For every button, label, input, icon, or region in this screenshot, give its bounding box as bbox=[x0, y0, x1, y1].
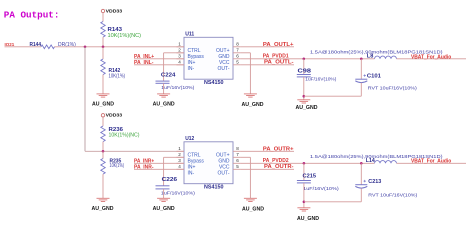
resistor R235 bbox=[102, 151, 104, 158]
svg-text:RVT 10uF/16V(10%): RVT 10uF/16V(10%) bbox=[368, 86, 417, 92]
wire U11 pin 6 VCC / PA_PVDD1 bbox=[241, 58, 375, 60]
ground AU_GND under U11 pin 7 bbox=[244, 93, 257, 95]
svg-text:AU_GND: AU_GND bbox=[92, 206, 114, 212]
wire C213 to return bbox=[360, 188, 362, 201]
svg-text:L14: L14 bbox=[366, 158, 375, 164]
wire VDD33 to R236 bbox=[102, 117, 104, 126]
junction PVDD1/C101 bbox=[360, 58, 363, 61]
wire IO21 to R144 bbox=[5, 46, 42, 48]
svg-text:VBAT_For_Audio: VBAT_For_Audio bbox=[411, 54, 451, 60]
wire C101 to return bbox=[360, 83, 362, 96]
svg-text:U11: U11 bbox=[185, 31, 194, 37]
ground AU_GND under U12 pin 7 bbox=[244, 197, 257, 199]
svg-text:1: 1 bbox=[178, 41, 181, 46]
svg-text:10K(1%): 10K(1%) bbox=[109, 74, 126, 80]
ground AU_GND under C98 bbox=[297, 99, 310, 101]
capacitor C101 polarized bbox=[360, 59, 362, 79]
svg-text:AU_GND: AU_GND bbox=[153, 206, 175, 212]
wire R235 to ground bbox=[102, 174, 104, 198]
svg-text:IN-: IN- bbox=[188, 170, 195, 176]
ground AU_GND under R142 bbox=[97, 93, 110, 95]
svg-text:8: 8 bbox=[236, 41, 239, 46]
svg-text:PA_PVDD2: PA_PVDD2 bbox=[263, 158, 289, 164]
svg-text:AU_GND: AU_GND bbox=[296, 105, 318, 111]
junction PVDD2/C213 bbox=[360, 162, 363, 165]
svg-text:U12: U12 bbox=[185, 136, 194, 142]
wire R142 to ground bbox=[102, 75, 104, 94]
svg-text:7: 7 bbox=[236, 152, 239, 157]
wire R144 to U11 pin 1 bbox=[55, 46, 185, 48]
svg-text:3: 3 bbox=[178, 53, 181, 58]
svg-text:10K(1%)(NC): 10K(1%)(NC) bbox=[109, 133, 140, 139]
wire U11 pin 5 OUT- bbox=[241, 64, 294, 66]
svg-text:OUT-: OUT- bbox=[218, 66, 230, 72]
svg-text:AU_GND: AU_GND bbox=[242, 206, 264, 212]
wire PA_INR+ to U12 pin 3 bbox=[134, 162, 184, 164]
wire Bypass pin 2 to C224 bbox=[164, 52, 184, 54]
ground AU_GND under C215 bbox=[297, 207, 310, 209]
svg-text:VDD33: VDD33 bbox=[106, 113, 123, 119]
capacitor C215 bbox=[303, 163, 305, 180]
wire C226 to ground bbox=[163, 189, 165, 198]
junction C98/C101 return bbox=[303, 95, 306, 98]
wire L8 to VBAT_For_Audio bbox=[397, 58, 467, 60]
ground AU_GND under R235 bbox=[97, 197, 110, 199]
svg-text:10K(1%)(NC): 10K(1%)(NC) bbox=[108, 33, 142, 39]
junction PVDD2/C215 bbox=[303, 162, 306, 165]
svg-text:1uF/16V(10%): 1uF/16V(10%) bbox=[303, 186, 339, 192]
svg-text:4: 4 bbox=[178, 164, 181, 169]
wire PA_INL+ to U11 pin 3 bbox=[134, 58, 184, 60]
resistor R144 bbox=[41, 45, 54, 49]
capacitor C224 bbox=[156, 80, 170, 82]
svg-text:PA_OUTL-: PA_OUTL- bbox=[264, 59, 294, 65]
junction R143/R142 node bbox=[102, 46, 105, 49]
wire U12 pin 7 GND to ground bbox=[241, 156, 251, 158]
svg-text:1uF/16V(10%): 1uF/16V(10%) bbox=[161, 191, 195, 197]
svg-text:2: 2 bbox=[178, 152, 181, 157]
wire U11 pin 8 OUT+ bbox=[241, 46, 294, 48]
svg-text:C101: C101 bbox=[367, 74, 381, 80]
junction C215/C213 return bbox=[303, 201, 306, 204]
svg-text:PA Output:: PA Output: bbox=[4, 9, 60, 20]
resistor R143 bbox=[101, 22, 105, 38]
resistor R236 bbox=[101, 126, 105, 142]
svg-text:L8: L8 bbox=[367, 54, 374, 60]
wire L14 to VBAT_For_Audio bbox=[397, 162, 467, 164]
svg-text:PA_OUTR-: PA_OUTR- bbox=[264, 164, 294, 170]
svg-text:NS4150: NS4150 bbox=[204, 184, 224, 190]
wire C213 return to C215 bbox=[304, 201, 361, 203]
svg-text:7: 7 bbox=[236, 47, 239, 52]
svg-text:PA_OUTL+: PA_OUTL+ bbox=[263, 42, 294, 48]
svg-text:1uF/16V(10%): 1uF/16V(10%) bbox=[161, 85, 194, 91]
svg-text:IN-: IN- bbox=[188, 66, 195, 72]
wire U12 pin 6 VCC / PA_PVDD2 bbox=[241, 162, 375, 164]
wire U12 pin 8 OUT+ bbox=[241, 150, 294, 152]
junction feed node bbox=[84, 46, 87, 49]
wire PA_INR- to U12 pin 4 bbox=[134, 168, 184, 170]
svg-text:AU_GND: AU_GND bbox=[153, 102, 175, 108]
wire feed to U12 pin 1 bbox=[85, 150, 184, 152]
wire C224 to ground bbox=[163, 83, 165, 94]
svg-text:6: 6 bbox=[236, 158, 239, 163]
svg-text:2: 2 bbox=[178, 47, 181, 52]
wire VDD33 to R143 bbox=[102, 13, 104, 22]
power VDD33 (top) bbox=[101, 9, 104, 12]
ground AU_GND under C224 bbox=[157, 93, 170, 95]
svg-text:8: 8 bbox=[236, 146, 239, 151]
svg-text:OUT-: OUT- bbox=[218, 170, 230, 176]
wire Bypass pin 2 to C226 bbox=[164, 156, 184, 158]
wire U12 pin 5 OUT- bbox=[241, 168, 294, 170]
svg-text:4: 4 bbox=[178, 59, 181, 64]
svg-text:C226: C226 bbox=[162, 177, 178, 183]
power VDD33 (bottom) bbox=[101, 114, 104, 117]
wire PA_INL- to U11 pin 4 bbox=[134, 64, 184, 66]
svg-text:C215: C215 bbox=[303, 173, 317, 179]
svg-text:5: 5 bbox=[236, 164, 239, 169]
svg-text:C213: C213 bbox=[368, 179, 381, 185]
svg-text:AU_GND: AU_GND bbox=[92, 102, 114, 108]
wire R143 to node bbox=[102, 37, 104, 47]
svg-text:VBAT_For_Audio: VBAT_For_Audio bbox=[411, 159, 451, 165]
svg-text:1: 1 bbox=[178, 146, 181, 151]
capacitor C213 polarized bbox=[360, 163, 362, 184]
wire C101 return to C98 bbox=[304, 95, 362, 97]
wire U11 pin 7 GND to ground bbox=[241, 52, 251, 54]
resistor R142 bbox=[102, 47, 104, 59]
capacitor C226 bbox=[156, 185, 170, 187]
capacitor C98 bbox=[303, 59, 305, 75]
wire C98 to ground bbox=[303, 77, 305, 100]
svg-text:VDD33: VDD33 bbox=[106, 9, 123, 15]
junction PVDD1/C98 bbox=[303, 58, 306, 61]
svg-text:R144: R144 bbox=[30, 42, 42, 48]
svg-text:3: 3 bbox=[178, 158, 181, 163]
svg-text:C98: C98 bbox=[298, 68, 312, 74]
junction R236/R235 node bbox=[102, 150, 105, 153]
wire C215 to ground bbox=[303, 183, 305, 208]
svg-text:RVT 10uF/16V(10%): RVT 10uF/16V(10%) bbox=[368, 193, 417, 199]
wire feed IO21 net to lower half bbox=[84, 47, 86, 152]
svg-text:AU_GND: AU_GND bbox=[242, 102, 264, 108]
svg-text:NS4150: NS4150 bbox=[204, 80, 224, 86]
svg-text:PA_PVDD1: PA_PVDD1 bbox=[263, 53, 289, 59]
svg-text:10K(1%): 10K(1%) bbox=[110, 163, 125, 169]
svg-text:5: 5 bbox=[236, 59, 239, 64]
svg-text:1uF/16V(10%): 1uF/16V(10%) bbox=[305, 77, 336, 83]
ground AU_GND under C226 bbox=[157, 197, 170, 199]
svg-text:PA_OUTR+: PA_OUTR+ bbox=[263, 147, 294, 153]
svg-text:AU_GND: AU_GND bbox=[297, 216, 319, 222]
svg-text:C224: C224 bbox=[161, 73, 176, 79]
wire R236 to node bbox=[102, 142, 104, 152]
svg-text:6: 6 bbox=[236, 53, 239, 58]
